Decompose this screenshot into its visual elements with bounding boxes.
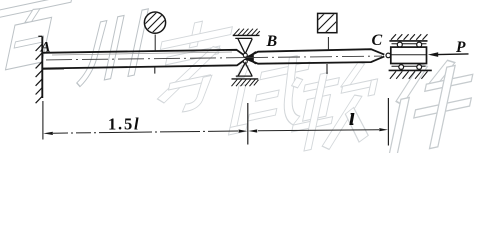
- support B bottom triangle: [238, 63, 252, 76]
- watermark 川: [76, 9, 149, 88]
- bar BC axis line: [246, 56, 382, 58]
- support C bottom rollers: [399, 65, 404, 70]
- fixed support wall at A: [41, 37, 43, 99]
- bar tip pin at C: [386, 53, 391, 58]
- dimension line l: [258, 130, 379, 131]
- circular cross-section indicator: [136, 3, 174, 41]
- support B bottom hatching: [232, 79, 259, 86]
- extension line at A: [42, 101, 44, 140]
- dimension arrow right at B: [239, 130, 248, 133]
- extension line at C: [387, 98, 389, 146]
- svg-text:1.5l: 1.5l: [108, 115, 140, 134]
- section tick below bar at circle: [154, 67, 156, 74]
- support C top rollers: [397, 42, 402, 47]
- rod through block: [392, 54, 427, 56]
- dimension arrow left at A: [43, 132, 53, 135]
- support B top triangle: [238, 39, 252, 54]
- watermark 件: [384, 51, 481, 158]
- support B top base line: [235, 37, 252, 39]
- svg-text:l: l: [350, 112, 355, 129]
- support C top ground line: [389, 40, 427, 42]
- support B bottom ground line: [232, 78, 259, 80]
- extension line at B: [247, 103, 249, 145]
- wall hatching: [36, 44, 43, 103]
- support C slider block: [391, 47, 427, 63]
- support C bottom ground line: [389, 69, 432, 71]
- dimension arrow right at C: [379, 128, 388, 131]
- bar AB top edge scan ghost: [52, 52, 232, 55]
- bar segment BC bottom edge: [247, 56, 385, 63]
- force P shaft: [437, 53, 469, 56]
- wall top tick: [38, 35, 42, 37]
- watermark 试: [223, 50, 314, 139]
- support B top pin: [243, 53, 247, 57]
- svg-text:C: C: [372, 32, 383, 49]
- watermark 软: [286, 57, 385, 159]
- dimension arrow left at B: [248, 129, 257, 132]
- support B bottom pin: [243, 59, 247, 63]
- leader tick from circle to bar: [154, 35, 156, 52]
- support C bottom roller line: [392, 65, 426, 67]
- bar segment AB bottom edge: [42, 52, 256, 69]
- bar AB axis line: [46, 58, 246, 60]
- support B top hatching: [234, 29, 260, 36]
- support C top roller line: [392, 43, 427, 45]
- support B bottom base line: [236, 75, 253, 77]
- bar segment AB top edge: [42, 50, 256, 64]
- square cross-section indicator: [312, 6, 343, 37]
- support C bottom hatching: [390, 71, 428, 79]
- support B top ground line: [233, 34, 260, 36]
- support C top hatching: [391, 34, 428, 40]
- leader tick from square to bar: [327, 37, 329, 51]
- watermark 百: [0, 0, 73, 74]
- force P arrowhead: [428, 52, 438, 57]
- dimension line 1.5l: [53, 132, 112, 135]
- watermark 考: [145, 14, 235, 120]
- svg-text:B: B: [266, 33, 278, 50]
- section tick below bar at square: [326, 64, 328, 74]
- bar segment BC top edge: [247, 49, 385, 57]
- bar AB bottom edge left reinforcement: [42, 68, 64, 70]
- svg-text:P: P: [456, 39, 466, 56]
